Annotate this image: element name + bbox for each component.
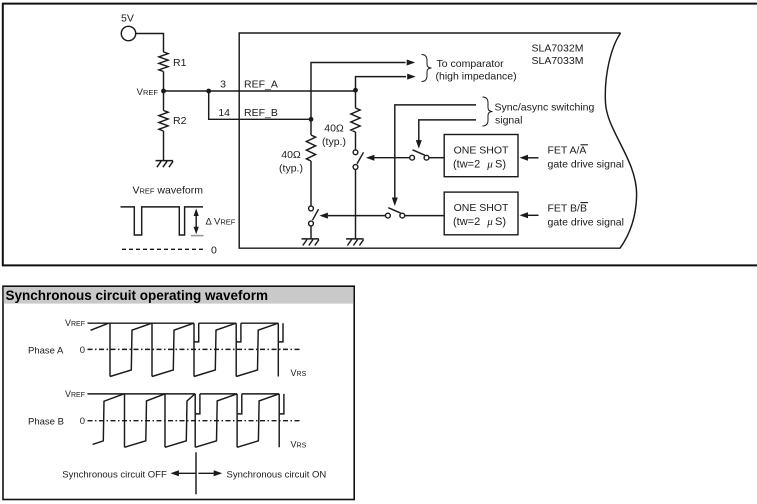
svg-text:0: 0 bbox=[211, 245, 217, 257]
svg-text:Synchronous circuit operating: Synchronous circuit operating waveform bbox=[6, 288, 269, 303]
svg-text:REF_A: REF_A bbox=[244, 79, 278, 91]
svg-text:R2: R2 bbox=[173, 115, 187, 127]
svg-text:VREF: VREF bbox=[137, 87, 159, 98]
svg-text:SLA7032M: SLA7032M bbox=[532, 43, 584, 55]
svg-text:Synchronous circuit OFF: Synchronous circuit OFF bbox=[62, 469, 167, 480]
svg-text:REF_B: REF_B bbox=[244, 107, 278, 119]
svg-text:(typ.): (typ.) bbox=[322, 136, 346, 148]
svg-text:40Ω: 40Ω bbox=[281, 149, 301, 161]
svg-text:ONE SHOT: ONE SHOT bbox=[454, 145, 509, 157]
svg-text:Phase B: Phase B bbox=[28, 417, 64, 428]
svg-text:5V: 5V bbox=[121, 13, 134, 25]
svg-text:(high impedance): (high impedance) bbox=[436, 71, 517, 83]
svg-text:SLA7033M: SLA7033M bbox=[532, 55, 584, 67]
svg-text:gate drive signal: gate drive signal bbox=[548, 158, 624, 170]
svg-text:R1: R1 bbox=[173, 57, 187, 69]
svg-text:FET A/A: FET A/A bbox=[548, 145, 587, 157]
svg-text:(tw=2 μS): (tw=2 μS) bbox=[453, 216, 506, 228]
svg-text:(typ.): (typ.) bbox=[279, 163, 303, 175]
svg-text:Sync/async switching: Sync/async switching bbox=[495, 102, 595, 114]
svg-text:14: 14 bbox=[218, 107, 230, 119]
svg-text:Phase A: Phase A bbox=[28, 346, 64, 357]
svg-text:3: 3 bbox=[220, 79, 226, 91]
svg-text:(tw=2 μS): (tw=2 μS) bbox=[453, 159, 506, 171]
svg-text:ONE SHOT: ONE SHOT bbox=[454, 202, 509, 214]
svg-text:gate drive signal: gate drive signal bbox=[548, 216, 624, 228]
svg-text:40Ω: 40Ω bbox=[324, 123, 344, 135]
svg-text:To comparator: To comparator bbox=[437, 58, 505, 70]
svg-text:0: 0 bbox=[80, 416, 85, 427]
svg-text:0: 0 bbox=[80, 345, 85, 356]
svg-text:Synchronous circuit ON: Synchronous circuit ON bbox=[227, 469, 327, 480]
svg-text:FET B/B: FET B/B bbox=[548, 202, 587, 214]
svg-text:signal: signal bbox=[495, 115, 522, 127]
svg-text:Δ VREF: Δ VREF bbox=[206, 217, 236, 228]
svg-text:VREF waveform: VREF waveform bbox=[133, 185, 204, 197]
